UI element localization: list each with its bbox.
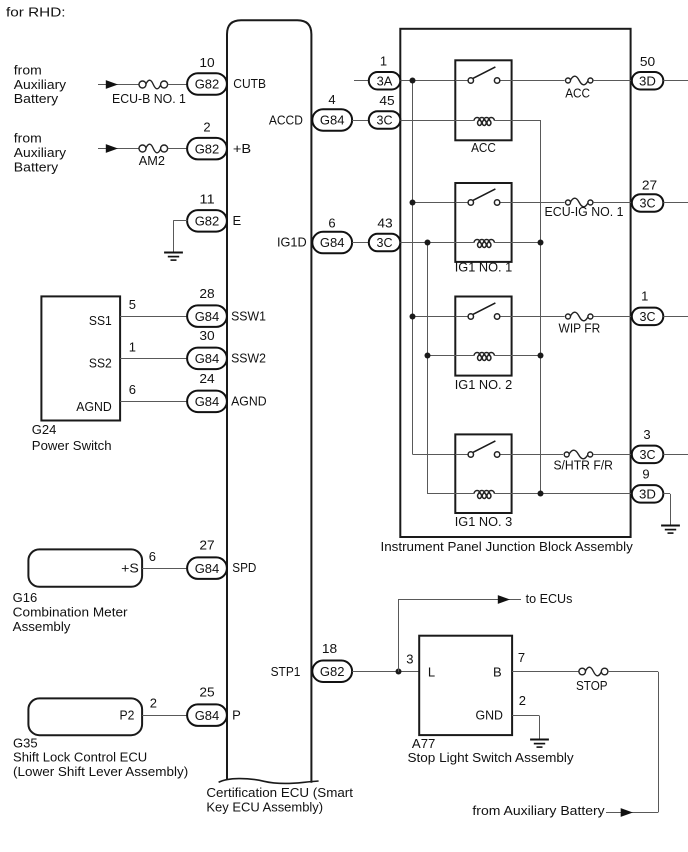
svg-text:SSW1: SSW1 [231, 308, 266, 323]
fuse AM2 [139, 144, 168, 153]
svg-text:G24: G24 [32, 422, 57, 437]
svg-text:IG1 NO. 3: IG1 NO. 3 [455, 514, 513, 529]
ground for 3D 9 [661, 526, 680, 534]
wire 3C 3 out [663, 454, 688, 456]
wire IG1 NO.2 to fuse WIP FR [512, 316, 565, 318]
wire 3C43 to IG1 NO.1 coil [400, 242, 474, 244]
label fuse ACC [565, 86, 590, 101]
svg-text:B: B [493, 664, 502, 679]
svg-text:Auxiliary: Auxiliary [14, 77, 67, 92]
arrow into ECU-B fuse [106, 80, 118, 89]
wire bus to IG1 NO.1 switch [413, 202, 456, 204]
label B [493, 664, 502, 679]
fuse ECU-IG NO. 1 [566, 198, 593, 207]
svg-text:SPD: SPD [232, 560, 256, 575]
svg-text:for RHD:: for RHD: [6, 5, 66, 20]
svg-text:18: 18 [322, 641, 337, 656]
svg-text:3C: 3C [640, 309, 656, 324]
pin 28 [199, 286, 214, 301]
wire SS1 to G84 [120, 316, 187, 318]
label +S [121, 560, 139, 575]
fuse ACC [566, 76, 593, 85]
wire AGND to G84 [120, 401, 187, 403]
wire bus to IG1 NO.2 switch [413, 316, 456, 318]
wire ACC relay to fuse [512, 80, 565, 82]
wire 3D 50 out [663, 80, 688, 82]
fuse WIP FR [566, 312, 593, 321]
pin 2 [203, 120, 210, 135]
svg-text:G84: G84 [320, 235, 345, 250]
label E [233, 213, 242, 228]
label AGND (G24) [76, 399, 112, 414]
pin 1 (WIP) [641, 288, 648, 303]
wire STP1 to A77 [352, 671, 419, 673]
svg-text:6: 6 [149, 549, 156, 564]
pin 1 (SS2) [129, 339, 136, 354]
svg-text:SSW2: SSW2 [231, 351, 266, 366]
connector 3A 1 [369, 72, 401, 90]
pin 6 (+S) [149, 549, 156, 564]
pin 18 [322, 641, 337, 656]
node junction IG1 NO.1 switch [410, 200, 416, 206]
arrow from battery bottom [621, 808, 633, 817]
pin 1 (3A) [380, 54, 387, 69]
pin 25 [199, 685, 214, 700]
svg-text:G84: G84 [195, 351, 220, 366]
label P2 [120, 707, 135, 722]
wire fuse to connector G82 +B [168, 148, 188, 150]
label GND [476, 707, 504, 722]
label ECU-B NO. 1 [112, 91, 186, 106]
label from Auxiliary Battery (second) [14, 131, 67, 175]
wire bus coil-feed vertical [427, 243, 429, 494]
pin 3 (A77) [406, 652, 413, 667]
svg-text:Assembly: Assembly [13, 619, 71, 634]
node junction coil bus 2 [425, 353, 431, 359]
svg-text:6: 6 [328, 215, 335, 230]
label G35 [13, 735, 38, 750]
label G16 [13, 590, 38, 605]
svg-text:IG1 NO. 2: IG1 NO. 2 [455, 377, 513, 392]
svg-text:3D: 3D [639, 73, 656, 88]
relay ACC [455, 60, 511, 140]
label ACCD [269, 112, 303, 127]
wire STOP fuse to corner [608, 671, 658, 673]
connector G82 STP1 [312, 661, 352, 683]
G16 Combination Meter box [28, 549, 142, 586]
pin 6 (IG1D) [328, 215, 335, 230]
wire P2 to G84 [142, 715, 187, 717]
svg-text:2: 2 [150, 695, 157, 710]
svg-text:Battery: Battery [14, 91, 59, 106]
wire SS2 to G84 [120, 358, 187, 360]
svg-text:from Auxiliary Battery: from Auxiliary Battery [472, 803, 605, 818]
svg-text:5: 5 [129, 297, 136, 312]
connector G82 CUTB [187, 73, 227, 95]
svg-text:+S: +S [121, 560, 139, 575]
connector G84 ACCD [312, 109, 352, 131]
pin 5 [129, 297, 136, 312]
label SS2 [89, 356, 112, 371]
ground for E [164, 253, 183, 261]
svg-text:45: 45 [379, 93, 394, 108]
wire coil bus to IG1 NO.3 coil [427, 493, 474, 495]
arrow to ECUs [498, 595, 510, 604]
wire 3D 9 to ground [663, 494, 670, 526]
pin 10 [199, 55, 214, 70]
label Power Switch [32, 438, 112, 453]
label relay ACC [471, 140, 496, 155]
pin 24 [199, 371, 214, 386]
svg-text:ACCD: ACCD [269, 112, 303, 127]
svg-text:AGND: AGND [76, 399, 112, 414]
label A77 [412, 736, 436, 751]
wire B to STOP fuse [512, 671, 579, 673]
connector G84 IG1D [312, 232, 352, 254]
svg-text:Key ECU Assembly): Key ECU Assembly) [206, 799, 323, 814]
wire ACCD to 3C [352, 120, 369, 122]
wire IG1 NO.1 coil to return bus [494, 242, 541, 244]
wire ACC coil to return bus [494, 120, 541, 122]
svg-text:from: from [14, 131, 42, 146]
svg-text:IG1D: IG1D [277, 235, 307, 250]
svg-text:to ECUs: to ECUs [526, 591, 573, 606]
svg-text:Stop Light Switch Assembly: Stop Light Switch Assembly [408, 750, 575, 765]
label G24 [32, 422, 57, 437]
svg-text:STOP: STOP [576, 678, 608, 693]
svg-text:SS2: SS2 [89, 356, 112, 371]
svg-text:9: 9 [642, 466, 649, 481]
wire IG1 NO.1 to fuse ECU-IG [512, 202, 565, 204]
wire ACC fuse to 3D [594, 80, 632, 82]
svg-text:3C: 3C [640, 196, 656, 211]
svg-text:G84: G84 [195, 309, 220, 324]
svg-text:G82: G82 [195, 214, 220, 229]
svg-text:GND: GND [476, 707, 504, 722]
wire battery to fuse AM2 [98, 148, 140, 150]
label +B [233, 141, 251, 156]
connector G84 P [187, 704, 227, 726]
connector G84 SPD [187, 557, 227, 579]
pin 45 [379, 93, 394, 108]
fuse ECU-B NO. 1 [139, 80, 168, 89]
svg-text:G84: G84 [195, 708, 220, 723]
svg-text:4: 4 [328, 92, 335, 107]
label P [232, 707, 241, 722]
svg-text:G84: G84 [195, 561, 220, 576]
Certification ECU (Smart Key ECU Assembly) box U1 [219, 20, 319, 783]
relay IG1 NO. 2 [455, 297, 511, 376]
wire branch up to ECUs [398, 599, 521, 672]
svg-text:30: 30 [199, 328, 214, 343]
wire 3C 1 out [663, 316, 688, 318]
connector 3D 9 [632, 485, 664, 503]
connector 3C 45 [369, 111, 401, 129]
svg-text:ACC: ACC [471, 140, 496, 155]
svg-text:Auxiliary: Auxiliary [14, 145, 67, 160]
connector G84 SSW2 [187, 348, 227, 370]
svg-text:24: 24 [199, 371, 214, 386]
wire IG1 NO.3 to fuse S/HTR [512, 454, 563, 456]
label SSW2 [231, 351, 266, 366]
label to ECUs [526, 591, 573, 606]
svg-text:7: 7 [518, 650, 525, 665]
wire WIP fuse to 3C [594, 316, 632, 318]
wire IG1 NO.2 coil to return bus [494, 355, 541, 357]
label Certification ECU [206, 785, 353, 814]
svg-text:3C: 3C [377, 113, 393, 128]
wire IG1D to 3C [352, 242, 369, 244]
svg-text:G35: G35 [13, 735, 38, 750]
svg-text:AM2: AM2 [139, 153, 165, 168]
svg-text:2: 2 [519, 693, 526, 708]
pin 3 (3C) [643, 427, 650, 442]
svg-text:10: 10 [199, 55, 214, 70]
label STP1 [271, 664, 301, 679]
svg-text:ECU-B NO. 1: ECU-B NO. 1 [112, 91, 186, 106]
svg-text:STP1: STP1 [271, 664, 301, 679]
wire stub to 3A [354, 80, 369, 82]
wire S/HTR fuse to 3C [593, 454, 632, 456]
pin 9 [642, 466, 649, 481]
fuse S/HTR F/R [564, 450, 593, 459]
connector 3C 43 [369, 234, 401, 252]
pin 6 (AGND) [129, 382, 136, 397]
pin 2 (P2) [150, 695, 157, 710]
wire 3A to ACC relay [400, 80, 455, 82]
pin 27 (3C) [642, 177, 657, 192]
wire E to ground [174, 220, 188, 252]
svg-text:11: 11 [199, 192, 214, 207]
wire IG1 NO.3 coil to 3D [494, 493, 632, 495]
svg-text:(Lower Shift Lever Assembly): (Lower Shift Lever Assembly) [13, 764, 188, 779]
label (Lower Shift Lever Assembly) [13, 764, 188, 779]
G24 Power Switch box [41, 296, 120, 420]
pin 11 [199, 192, 214, 207]
connector G84 SSW1 [187, 305, 227, 327]
svg-text:6: 6 [129, 382, 136, 397]
label AGND (ECU) [231, 394, 267, 409]
wire +S to G84 [142, 568, 187, 570]
label from Auxiliary Battery (top) [14, 62, 67, 106]
node junction coil bus top [425, 240, 431, 246]
connector 3D 50 [632, 72, 664, 90]
relay IG1 NO. 3 [455, 434, 511, 513]
arrow into AM2 fuse [106, 144, 118, 153]
label fuse S/HTR F/R [553, 457, 613, 472]
label Shift Lock Control ECU [13, 750, 147, 765]
node junction 3A bus [410, 78, 416, 84]
svg-text:CUTB: CUTB [233, 76, 266, 91]
node junction to ECUs branch [396, 669, 402, 675]
connector G82 E [187, 210, 227, 232]
svg-text:27: 27 [199, 538, 214, 553]
label Combination Meter [13, 604, 129, 619]
label CUTB [233, 76, 266, 91]
svg-text:+B: +B [233, 141, 251, 156]
svg-text:43: 43 [377, 215, 392, 230]
pin 4 [328, 92, 335, 107]
wire battery to fuse ECU-B [98, 84, 140, 86]
svg-text:Battery: Battery [14, 159, 59, 174]
G35 Shift Lock Control ECU box [28, 698, 142, 735]
label relay IG1 NO. 1 [455, 259, 513, 274]
label SS1 [89, 313, 112, 328]
connector 3C 3 [632, 446, 664, 464]
svg-text:WIP FR: WIP FR [559, 321, 601, 336]
svg-text:3C: 3C [377, 235, 393, 250]
wire battery bottom [606, 812, 658, 814]
svg-text:3C: 3C [640, 447, 656, 462]
pin 30 [199, 328, 214, 343]
label SSW1 [231, 308, 266, 323]
connector G84 AGND [187, 391, 227, 413]
svg-text:S/HTR F/R: S/HTR F/R [553, 457, 613, 472]
svg-text:3: 3 [406, 652, 413, 667]
svg-text:28: 28 [199, 286, 214, 301]
node junction coil return 1 [538, 240, 544, 246]
fuse STOP [579, 667, 608, 676]
svg-text:E: E [233, 213, 242, 228]
pin 7 [518, 650, 525, 665]
relay IG1 NO. 1 [455, 183, 511, 262]
title label "for RHD:" [6, 5, 66, 20]
svg-text:G84: G84 [195, 394, 220, 409]
svg-text:L: L [428, 664, 435, 679]
wire GND to ground [512, 716, 539, 740]
svg-text:3: 3 [643, 427, 650, 442]
wire bus switch-feed vertical [412, 81, 414, 455]
svg-text:Instrument Panel Junction Bloc: Instrument Panel Junction Block Assembly [381, 539, 634, 554]
svg-text:2: 2 [203, 120, 210, 135]
wire 3C 27 out [663, 202, 688, 204]
svg-text:Shift Lock Control ECU: Shift Lock Control ECU [13, 750, 147, 765]
svg-text:P2: P2 [120, 707, 135, 722]
wire right vertical to battery [658, 672, 660, 813]
svg-text:IG1 NO. 1: IG1 NO. 1 [455, 259, 513, 274]
wire bus to IG1 NO.3 switch [413, 454, 456, 456]
label SPD [232, 560, 256, 575]
label fuse STOP [576, 678, 608, 693]
svg-text:G82: G82 [195, 77, 220, 92]
svg-text:SS1: SS1 [89, 313, 112, 328]
svg-text:Combination Meter: Combination Meter [13, 604, 129, 619]
node junction coil return 2 [538, 353, 544, 359]
svg-text:ACC: ACC [565, 86, 590, 101]
svg-text:50: 50 [640, 54, 655, 69]
svg-text:3D: 3D [639, 487, 656, 502]
svg-text:1: 1 [380, 54, 387, 69]
pin 43 [377, 215, 392, 230]
Instrument Panel Junction Block Assembly box [400, 29, 630, 537]
svg-text:Power Switch: Power Switch [32, 438, 112, 453]
connector 3C 27 [632, 194, 664, 212]
svg-text:Certification ECU (Smart: Certification ECU (Smart [206, 785, 353, 800]
label relay IG1 NO. 3 [455, 514, 513, 529]
node junction coil return 3 [538, 491, 544, 497]
wire 3C45 to ACC coil [400, 120, 474, 122]
label relay IG1 NO. 2 [455, 377, 513, 392]
connector G82 +B [187, 138, 227, 160]
label Stop Light Switch Assembly [408, 750, 575, 765]
label fuse WIP FR [559, 321, 601, 336]
svg-text:ECU-IG NO. 1: ECU-IG NO. 1 [545, 204, 624, 219]
ground for A77 GND [530, 740, 549, 748]
svg-text:1: 1 [641, 288, 648, 303]
svg-text:G16: G16 [13, 590, 38, 605]
svg-text:AGND: AGND [231, 394, 267, 409]
label Instrument Panel Junction Block Assembly [381, 539, 634, 554]
label AM2 [139, 153, 165, 168]
wire fuse to connector G82 CUTB [168, 84, 188, 86]
svg-text:3A: 3A [377, 73, 393, 88]
svg-text:25: 25 [199, 685, 214, 700]
A77 Stop Light Switch box [419, 636, 512, 735]
svg-text:G84: G84 [320, 113, 345, 128]
svg-text:P: P [232, 707, 241, 722]
connector 3C 1 [632, 308, 664, 326]
label Assembly [13, 619, 71, 634]
wire bus coil-return vertical [540, 120, 542, 494]
label L [428, 664, 435, 679]
node junction IG1 NO.2 switch [410, 314, 416, 320]
pin 50 [640, 54, 655, 69]
svg-text:from: from [14, 62, 42, 77]
label IG1D [277, 235, 307, 250]
svg-text:27: 27 [642, 177, 657, 192]
svg-text:G82: G82 [320, 664, 345, 679]
label from Auxiliary Battery (bottom) [472, 803, 605, 818]
pin 2 (GND) [519, 693, 526, 708]
wire coil bus to IG1 NO.2 coil [427, 355, 474, 357]
label fuse ECU-IG NO. 1 [545, 204, 624, 219]
pin 27 [199, 538, 214, 553]
svg-text:1: 1 [129, 339, 136, 354]
svg-text:G82: G82 [195, 141, 220, 156]
wire ECU-IG fuse to 3C [594, 202, 632, 204]
